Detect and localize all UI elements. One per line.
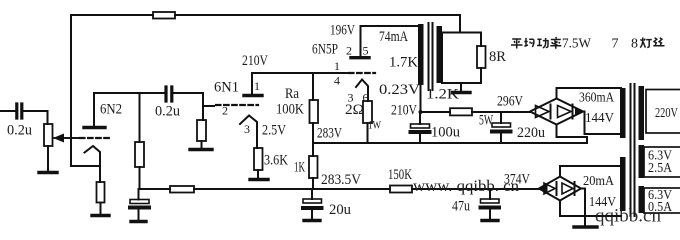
svg-text:8: 8 <box>631 37 638 52</box>
resistor R plate-load 6N2 <box>135 142 144 167</box>
wire: bridge2 AC top <box>560 166 621 177</box>
svg-text:Ra: Ra <box>285 86 299 102</box>
svg-text:1: 1 <box>334 59 340 73</box>
tube 6N5P plate <box>351 56 369 59</box>
svg-text:8R: 8R <box>489 49 506 65</box>
resistor R grid-leak 6N1 <box>197 120 206 141</box>
svg-text:100K: 100K <box>276 102 304 118</box>
wire: bridge1 AC top <box>557 88 622 99</box>
wire: grid leak bottom <box>201 141 203 148</box>
svg-text:0.23V: 0.23V <box>379 82 420 98</box>
wire: 6N5P plate to OPT primary <box>361 25 421 27</box>
ground (6N1 grid resistor) <box>190 148 212 151</box>
svg-text:2.5A: 2.5A <box>648 161 673 176</box>
capacitor C 100u (electrolytic) <box>419 112 421 143</box>
wire: 6.3V 2.5A loop <box>644 147 680 177</box>
svg-text:6N1: 6N1 <box>214 80 239 96</box>
wire: 6N2 plate node <box>94 92 203 94</box>
svg-text:2Ω: 2Ω <box>345 102 364 118</box>
capacitor C coupling 0.2u plates <box>166 87 172 101</box>
wire: bridge1 AC right <box>583 112 621 135</box>
svg-text:5: 5 <box>363 44 369 58</box>
wire: 2ohm bottom to 283V rail <box>367 123 369 143</box>
glyph gong <box>537 38 549 48</box>
wire: 6N2 plate load leads <box>139 93 141 189</box>
ground (20u) <box>304 219 320 222</box>
ground (pot) <box>39 171 57 174</box>
glyph jun <box>524 38 534 47</box>
svg-text:144V: 144V <box>585 111 614 126</box>
resistor Ra 100K <box>310 100 319 123</box>
svg-text:220V: 220V <box>655 106 678 121</box>
wire: 6.3V 0.5A loop <box>644 188 680 213</box>
svg-text:6N5P: 6N5P <box>312 42 338 58</box>
wire: bridge1 negative to rail <box>557 125 588 144</box>
node: 210V junction dot <box>419 110 423 114</box>
transformer PT filament winding (bar) <box>620 157 626 211</box>
svg-text:4: 4 <box>334 74 340 88</box>
glyph si <box>653 38 664 46</box>
resistor R 150K <box>390 186 412 193</box>
glyph ping <box>511 39 523 49</box>
rectifier bridge D2 (diamond) <box>539 177 581 201</box>
svg-text:2: 2 <box>222 104 228 118</box>
ground (6N2 cathode resistor) <box>92 214 109 217</box>
svg-text:7: 7 <box>612 37 619 52</box>
svg-text:283.5V: 283.5V <box>321 172 361 188</box>
svg-text:1.2K: 1.2K <box>426 87 459 103</box>
capacitor C 220u (electrolytic) <box>500 112 502 143</box>
transformer OPT core <box>429 23 433 90</box>
svg-text:20u: 20u <box>329 202 351 218</box>
capacitor C-in 0.2u plates <box>17 104 22 118</box>
tube 6N2 cathode <box>85 146 101 182</box>
svg-text:0.2u: 0.2u <box>7 123 32 139</box>
resistor R 3.6K cathode 6N1 <box>254 148 263 170</box>
svg-text:1.7K: 1.7K <box>389 55 418 71</box>
ground (47u) <box>482 219 498 222</box>
wire: feedback tap from speaker <box>459 15 461 33</box>
svg-text:0.2u: 0.2u <box>155 104 180 120</box>
svg-text:3: 3 <box>244 122 250 136</box>
svg-text:7.5W: 7.5W <box>562 37 592 52</box>
wire: B+ bus 283.5V <box>139 188 540 190</box>
transformer PT primary 220V winding (bar) <box>639 86 645 140</box>
svg-text:3.6K: 3.6K <box>264 153 288 169</box>
tube 6N5P grid (dashed) <box>349 72 375 74</box>
capacitor C 47u (electrolytic) <box>489 189 491 219</box>
label average power note 7.5W pins 7 8 filament <box>511 37 561 49</box>
svg-text:210V: 210V <box>242 53 268 69</box>
resistor R 1K <box>309 156 318 178</box>
tube 6N1 cathode <box>240 116 257 149</box>
svg-text:www. qqibb. cn: www. qqibb. cn <box>413 178 519 195</box>
wire: speaker loop ground stem <box>460 83 462 91</box>
wire: pot bottom lead <box>47 146 49 171</box>
potentiometer VR1 body <box>44 124 53 146</box>
svg-text:47u: 47u <box>452 199 470 215</box>
svg-text:360mA: 360mA <box>579 91 615 106</box>
svg-text:100u: 100u <box>431 125 460 141</box>
svg-text:196V: 196V <box>330 23 355 39</box>
wire: speaker loop <box>442 33 481 84</box>
resistor R 8R speaker <box>477 46 486 68</box>
wire: OPT primary bottom lead to 210V node <box>420 85 422 112</box>
ground (bridge2) <box>574 225 597 228</box>
rectifier bridge D1 (diamond) <box>530 99 583 125</box>
transformer PT core <box>631 84 635 216</box>
resistor R-fb (feedback) <box>153 12 175 19</box>
wire: Ra branch vertical <box>312 73 314 189</box>
capacitor C decoupling (first stage, electrolytic) <box>138 189 140 220</box>
glyph lv <box>550 37 561 49</box>
wire: 6N1 grid node <box>203 93 214 120</box>
wire: bridge2 AC right / ground branch <box>560 189 621 227</box>
svg-text:210V: 210V <box>391 103 417 119</box>
svg-text:2.5V: 2.5V <box>262 123 286 139</box>
transformer OPT secondary winding (bar) <box>437 26 443 83</box>
svg-text:6N2: 6N2 <box>100 102 122 118</box>
ground (3.6K) <box>250 178 268 181</box>
svg-text:74mA: 74mA <box>379 29 408 45</box>
svg-text:283V: 283V <box>317 126 342 142</box>
capacitor C 20u (electrolytic) <box>311 189 313 219</box>
resistor R cathode 6N2 <box>97 182 105 203</box>
transformer PT 6.3V 0.5A winding (bar) <box>639 186 645 213</box>
tube 6N1 plate <box>244 94 262 97</box>
resistor R 1.2K 5W <box>450 108 472 115</box>
svg-text:1W: 1W <box>368 118 382 132</box>
tube 6N2 grid (dashed) <box>53 137 78 139</box>
tube 6N2 plate <box>84 126 105 129</box>
tube 6N5P cathode <box>356 80 368 102</box>
svg-text:220u: 220u <box>517 125 545 141</box>
wire: cathode resistor bottom <box>100 203 102 215</box>
tube 6N1 grid (dashed) <box>216 104 258 106</box>
svg-text:qqibb.cn: qqibb.cn <box>595 206 661 227</box>
wire: 283V node rail <box>313 142 587 144</box>
resistor R bus (decoupling) <box>170 186 194 193</box>
transformer OPT primary winding (bar) <box>418 24 424 85</box>
transformer PT secondary HV winding (bar) <box>620 88 626 138</box>
svg-text:20mA: 20mA <box>583 174 615 189</box>
wire: global feedback top line <box>71 15 460 166</box>
svg-text:150K: 150K <box>388 167 412 183</box>
ground (speaker loop) <box>453 91 471 94</box>
wire: 210V to 296V rail <box>421 111 531 113</box>
svg-text:1: 1 <box>254 79 260 93</box>
wire: input signal line <box>0 111 48 124</box>
wire: 210V plate line to 6N5P grid <box>252 72 347 74</box>
transformer PT 6.3V 2.5A winding (bar) <box>639 145 645 178</box>
potentiometer wiper arrow <box>61 137 79 139</box>
resistor R 2ohm cathode <box>363 101 372 123</box>
svg-text:1K: 1K <box>294 160 305 176</box>
svg-text:2: 2 <box>346 44 352 58</box>
wire: 220V primary loop <box>646 90 680 134</box>
ground (stage cap) <box>131 220 146 223</box>
glyph deng <box>640 38 652 48</box>
svg-text:296V: 296V <box>497 94 523 110</box>
